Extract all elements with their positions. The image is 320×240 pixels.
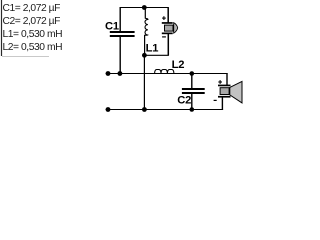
svg-text:C2: C2 [177, 95, 191, 107]
value list panel bottom border [2, 56, 49, 58]
inductor L1 [145, 18, 148, 35]
svg-text:L1= 0,530 mH: L1= 0,530 mH [3, 29, 63, 40]
woofer top terminal bar [218, 85, 231, 87]
node: C2 top junction dot [190, 71, 195, 76]
tweeter bottom terminal bar [162, 33, 173, 35]
woofer minus sign [214, 99, 217, 101]
node: L1 top junction dot [142, 5, 147, 10]
svg-text:C2= 2,072 µF: C2= 2,072 µF [3, 16, 61, 27]
wire: horizontal to tweeter return [144, 54, 169, 56]
capacitor C1 [110, 31, 135, 37]
node: return junction dot (bottom bus) [142, 107, 147, 112]
wire: top horizontal [120, 7, 169, 9]
wire: bottom bus [106, 109, 224, 111]
tweeter top terminal bar [162, 22, 173, 24]
tweeter plus sign [162, 16, 166, 20]
wire: tweeter bottom lead [167, 34, 169, 56]
wire: C2 upper lead [191, 74, 193, 89]
svg-text:L2: L2 [172, 59, 185, 71]
svg-text:C1= 2,072 µF: C1= 2,072 µF [3, 3, 61, 14]
tweeter cone [174, 23, 178, 33]
woofer body [220, 88, 229, 95]
woofer cone [230, 81, 242, 103]
inductor L2 [155, 70, 174, 74]
wire: C1 upper lead [119, 7, 121, 32]
tweeter minus sign [162, 36, 166, 38]
node: L1 bottom junction dot [142, 53, 147, 58]
node: return terminal dot (bottom) [106, 107, 111, 112]
woofer bottom terminal bar [218, 96, 231, 98]
wire: tweeter top lead [167, 8, 169, 23]
node: C2 bottom junction dot [190, 107, 195, 112]
svg-text:L1: L1 [146, 42, 159, 54]
svg-text:L2= 0,530 mH: L2= 0,530 mH [3, 42, 63, 53]
woofer plus sign [218, 80, 222, 84]
capacitor C2 [182, 88, 205, 94]
wire: woofer bottom lead [221, 97, 223, 110]
node: input terminal dot (top) [106, 71, 111, 76]
wire: L1 upper lead [144, 8, 146, 19]
svg-text:C1: C1 [105, 20, 119, 32]
wire: woofer top lead [226, 73, 228, 85]
wire: top bus [106, 73, 228, 75]
node: C1 tap junction dot [118, 71, 123, 76]
wire: L1 return vertical [143, 55, 145, 109]
wire: C2 lower lead [191, 94, 193, 110]
tweeter body [165, 25, 174, 31]
value list panel left border [1, 0, 3, 56]
wire: L1 lower lead [144, 35, 146, 56]
wire: C1 lower lead [119, 37, 121, 74]
